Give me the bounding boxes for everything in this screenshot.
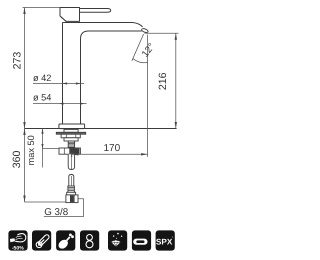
hose tube <box>69 175 74 187</box>
12 deg slanted line <box>132 34 144 61</box>
handle inner diagonal <box>61 17 67 21</box>
handle lever blade <box>80 9 111 13</box>
handle base <box>60 8 80 22</box>
brass nut <box>59 148 80 154</box>
max50 arrows <box>41 129 43 134</box>
collar <box>64 138 78 141</box>
spout top edge <box>63 23 143 28</box>
body column left edge <box>62 23 64 125</box>
icon 3: drumstick <box>56 230 75 250</box>
ext line top-left to handle <box>23 7 61 9</box>
max50 bottom ext tick <box>43 148 60 150</box>
base flange <box>59 124 85 129</box>
hose end nut G3/8 <box>66 195 78 203</box>
svg-text:360: 360 <box>11 151 23 169</box>
273 dimension line <box>24 8 26 129</box>
icon 7: SPX <box>156 230 175 250</box>
icon 5: gem + sparkles <box>108 230 127 250</box>
horseshoe washer <box>56 132 85 134</box>
countertop line <box>25 128 177 130</box>
rod lower end <box>68 154 74 169</box>
max 50 dimension line <box>42 129 44 168</box>
spout underside + inner corner to column right edge <box>81 31 142 124</box>
svg-text:SPX: SPX <box>156 238 173 247</box>
hose collar <box>67 192 76 195</box>
svg-text:170: 170 <box>104 143 121 154</box>
o42 dimension line <box>33 83 84 85</box>
216 dimension line <box>175 33 177 128</box>
svg-text:12°: 12° <box>140 41 158 59</box>
shank under deck <box>64 129 78 132</box>
12 deg arc <box>133 59 148 63</box>
svg-text:216: 216 <box>157 72 169 90</box>
arrowheads <box>23 8 177 203</box>
icon 1: water saving -50% <box>8 230 27 251</box>
svg-text:G 3/8: G 3/8 <box>44 207 69 218</box>
hose crimp ribs <box>68 186 75 192</box>
svg-text:max 50: max 50 <box>26 135 36 165</box>
216 arrows <box>175 33 177 40</box>
icon 2: thermometer <box>32 230 51 250</box>
locknut <box>61 134 80 138</box>
o54 arrows <box>59 103 64 105</box>
170 dimension line <box>72 153 148 155</box>
o54 dimension line <box>33 103 87 105</box>
G3/8 leader: underline, up, to nut <box>44 199 84 217</box>
threaded rod upper <box>68 141 74 148</box>
360 arrows <box>23 129 25 136</box>
170 left ext <box>71 152 73 157</box>
icon 6: oval ring <box>132 230 151 250</box>
svg-text:273: 273 <box>11 52 23 70</box>
icon 4: double circle <box>80 230 99 250</box>
o42 arrows <box>63 82 68 84</box>
aerator tip curl <box>141 28 148 33</box>
svg-text:ø 42: ø 42 <box>33 73 51 83</box>
273 arrows <box>23 8 25 15</box>
170 right ext (aerator axis) <box>147 35 149 157</box>
360 bottom ext line <box>25 201 66 203</box>
below-deck mounting hardware <box>56 129 85 202</box>
svg-text:-50%: -50% <box>12 245 24 251</box>
360 dimension line <box>24 129 26 203</box>
svg-text:ø 54: ø 54 <box>33 92 51 102</box>
170 arrows <box>72 153 79 155</box>
216 top ext line from tip <box>145 32 179 34</box>
